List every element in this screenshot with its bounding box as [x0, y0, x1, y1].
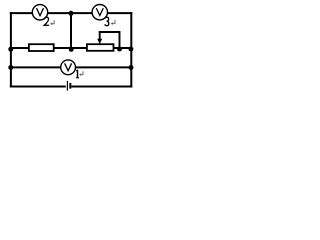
label 3 — [105, 17, 109, 26]
return mark after 3 — [111, 20, 115, 25]
wire bottom right of battery — [71, 86, 132, 88]
background — [0, 0, 145, 95]
label 2 — [44, 17, 49, 25]
wire vertical from top node to middle row — [70, 13, 72, 48]
wire top — [10, 12, 133, 14]
battery long plate — [66, 81, 68, 91]
node wiper junction — [117, 47, 122, 52]
return mark after 2 — [50, 20, 54, 25]
node lower-right — [129, 65, 134, 70]
resistor R box — [29, 44, 54, 51]
node middle-right — [128, 47, 133, 52]
wire bottom left of battery — [10, 86, 66, 88]
return mark after 1 — [79, 71, 83, 76]
node top junction — [69, 11, 74, 16]
voltmeter V2 — [32, 5, 47, 20]
label 1 — [76, 70, 79, 78]
wire voltmeter V1 row — [11, 66, 132, 68]
wire middle row — [11, 47, 132, 49]
battery short plate — [69, 83, 71, 89]
node middle-center — [69, 47, 74, 52]
wire left — [10, 12, 12, 87]
voltmeter V1 — [61, 60, 76, 75]
rheostat wiper arrowhead — [97, 39, 102, 44]
rheostat wiper wire — [100, 32, 120, 48]
node lower-left — [8, 65, 13, 70]
voltmeter V3 — [92, 5, 107, 20]
wire right — [130, 12, 132, 87]
rheostat box — [87, 44, 114, 51]
node middle-left — [8, 47, 13, 52]
